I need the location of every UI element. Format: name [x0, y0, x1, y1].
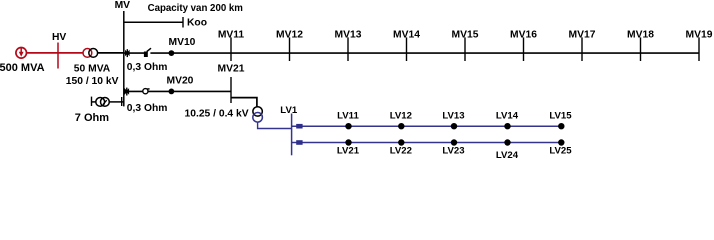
node MV13 [347, 37, 349, 61]
wire T3 to LV bus (navy) [258, 122, 292, 128]
svg-text:50 MVA: 50 MVA [74, 64, 111, 75]
node MV10 [169, 50, 175, 56]
switch feeder 2 (open ring switch) [143, 89, 150, 94]
transformer T2 (7 Ohm coil) [96, 98, 110, 107]
node HV tick (red) [57, 43, 59, 69]
svg-text:10.25 / 0.4 kV: 10.25 / 0.4 kV [185, 109, 249, 120]
transformer T3 10.25/0.4 kV [253, 107, 262, 116]
feeder 1 wire (MV10 line) [124, 52, 148, 54]
node LV13 [451, 123, 457, 129]
breaker feeder 2 (bowtie) [125, 88, 130, 96]
earthing branch: open end tick [91, 97, 93, 106]
svg-text:LV11: LV11 [337, 110, 359, 121]
svg-text:Capacity van 200 km: Capacity van 200 km [148, 3, 244, 14]
node LV11 [345, 123, 351, 129]
svg-text:MV13: MV13 [335, 30, 362, 41]
node MV17 [581, 37, 583, 61]
svg-text:0,3 Ohm: 0,3 Ohm [127, 103, 168, 114]
svg-text:LV12: LV12 [390, 110, 412, 121]
wire Koo branch [124, 21, 183, 23]
busbar LV1 [291, 114, 293, 156]
breaker feeder 1 (bowtie) [125, 49, 130, 57]
node tick Koo [182, 17, 184, 28]
wire HV (red) source to transformer [26, 52, 83, 54]
wire MV21 to T3 [231, 98, 257, 107]
svg-text:Koo: Koo [187, 18, 207, 29]
svg-text:MV20: MV20 [167, 76, 194, 87]
switch feeder 1 (fuse block + blade) [144, 48, 151, 57]
node MV15 [464, 37, 466, 61]
node MV11 [230, 37, 232, 61]
node MV21 [230, 77, 232, 103]
svg-text:LV22: LV22 [390, 146, 412, 157]
node MV14 [406, 37, 408, 61]
svg-text:LV23: LV23 [442, 146, 464, 157]
svg-text:MV: MV [115, 0, 131, 11]
node MV16 [523, 37, 525, 61]
svg-text:LV1: LV1 [280, 105, 298, 116]
cable head A (navy square) [296, 124, 302, 129]
svg-text:LV13: LV13 [442, 110, 464, 121]
svg-text:0,3 Ohm: 0,3 Ohm [127, 62, 168, 73]
svg-text:HV: HV [52, 32, 66, 43]
cable head B (navy square) [296, 140, 302, 145]
wire tick to T2 [92, 101, 97, 103]
svg-text:MV15: MV15 [452, 30, 479, 41]
feeder 2 wire (MV20 line) [124, 90, 231, 92]
node MV12 [289, 37, 291, 61]
svg-text:MV11: MV11 [218, 30, 245, 41]
svg-text:MV12: MV12 [276, 30, 303, 41]
svg-text:MV14: MV14 [393, 30, 420, 41]
svg-text:7 Ohm: 7 Ohm [75, 112, 109, 124]
svg-text:MV19: MV19 [686, 30, 713, 41]
transformer T1 150/10 kV [83, 49, 98, 58]
svg-text:MV18: MV18 [627, 30, 654, 41]
node LV25 [558, 139, 564, 145]
node LV12 [398, 123, 404, 129]
wire T1 to MV bus [98, 52, 124, 54]
svg-text:LV25: LV25 [549, 146, 572, 157]
node LV22 [398, 139, 404, 145]
node LV23 [451, 139, 457, 145]
busbar MV [123, 11, 125, 106]
node LV21 [345, 139, 351, 145]
node tick at bus bottom [121, 97, 123, 106]
svg-text:LV24: LV24 [496, 150, 519, 159]
svg-text:MV16: MV16 [510, 30, 537, 41]
node LV24 [504, 139, 510, 145]
svg-text:LV21: LV21 [337, 146, 360, 157]
svg-text:MV17: MV17 [569, 30, 596, 41]
node MV20 [169, 89, 175, 95]
svg-text:150 / 10 kV: 150 / 10 kV [66, 76, 119, 87]
svg-text:MV21: MV21 [218, 64, 245, 75]
node LV15 [558, 123, 564, 129]
svg-text:LV14: LV14 [496, 110, 519, 121]
node MV18 [640, 37, 642, 61]
wire T2 to bus [109, 101, 124, 103]
svg-text:MV10: MV10 [169, 37, 196, 48]
LV feeder B wire [292, 142, 561, 144]
LV feeder A wire [292, 125, 561, 127]
node MV19 [698, 37, 700, 61]
svg-text:500 MVA: 500 MVA [0, 62, 45, 74]
source G1 (network feeder, red) [16, 48, 27, 59]
node LV14 [504, 123, 510, 129]
svg-text:LV15: LV15 [549, 110, 572, 121]
